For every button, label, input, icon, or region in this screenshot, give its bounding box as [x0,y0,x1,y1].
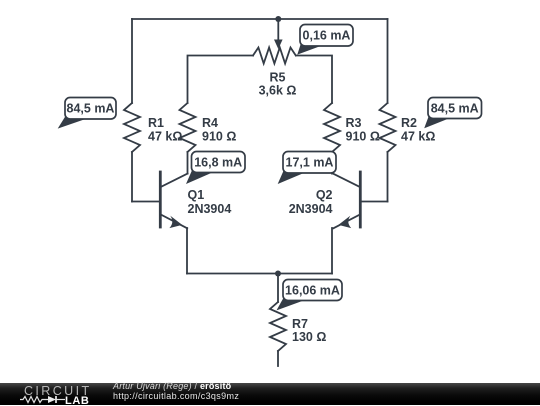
transistor Q1 [160,172,187,228]
wire R2 top lead [387,19,389,103]
node top junction [275,16,281,22]
svg-text:3,6k Ω: 3,6k Ω [259,84,297,98]
svg-text:LAB: LAB [65,395,89,406]
svg-text:R2: R2 [401,116,417,130]
svg-text:47 kΩ: 47 kΩ [401,130,435,144]
footer url line [113,391,239,401]
svg-text:16,06 mA: 16,06 mA [285,284,340,298]
potentiometer wiper arrow [274,20,283,49]
svg-text:R3: R3 [346,116,362,130]
wire R3 bottom lead [331,152,333,174]
wire R4 bottom lead [187,152,189,174]
wire bottom rail [187,273,332,275]
wire R4 top lead to R5 left [188,56,254,104]
svg-text:2N3904: 2N3904 [188,202,232,216]
transistor Q2 [333,172,360,228]
footer bar [0,383,540,405]
wire Q2 emitter down [331,228,333,274]
svg-text:910 Ω: 910 Ω [346,130,380,144]
wire R1 bottom lead [131,152,133,202]
CircuitLab logo wordmark CIRCUIT [24,384,92,398]
svg-text:R7: R7 [292,317,308,331]
svg-text:910 Ω: 910 Ω [202,130,236,144]
wire R7 top lead [277,274,279,303]
wire R5 right to R3 top lead [296,56,332,104]
svg-text:16,8 mA: 16,8 mA [194,156,242,170]
annotation balloon 17,1 mA [278,152,336,185]
resistor R4 [180,103,196,152]
wire Q1 emitter down [186,228,188,274]
svg-text:17,1 mA: 17,1 mA [286,156,334,170]
svg-text:47 kΩ: 47 kΩ [148,130,182,144]
CircuitLab logo symbol (resistor + diode) and LAB [18,395,118,406]
svg-text:R4: R4 [202,116,218,130]
resistor R3 [324,103,340,152]
resistor R1 [124,103,140,152]
footer credit line [113,381,231,391]
annotation balloon 84,5 mA left [58,98,116,129]
annotation balloon 16,06 mA [277,280,343,311]
resistor R5 (potentiometer body) [253,48,296,64]
svg-text:Q2: Q2 [316,188,333,202]
svg-text:Q1: Q1 [188,188,205,202]
annotation balloon 84,5 mA right [424,98,481,129]
wire top rail [132,18,388,20]
svg-text:84,5 mA: 84,5 mA [431,102,479,116]
svg-text:R1: R1 [148,116,164,130]
wire R1 top lead [131,19,133,103]
svg-text:0,16 mA: 0,16 mA [303,29,351,43]
wire Q1 base [132,201,160,203]
node bottom junction [275,271,281,277]
svg-text:84,5 mA: 84,5 mA [67,102,115,116]
svg-text:R5: R5 [270,71,286,85]
svg-text:2N3904: 2N3904 [289,202,333,216]
annotation balloon 0,16 mA [297,25,353,55]
wire R2 bottom lead [387,152,389,202]
resistor R2 [380,103,396,152]
wire Q2 base [361,201,388,203]
wire R7 bottom lead [277,351,279,366]
annotation balloon 16,8 mA [186,152,245,185]
resistor R7 [270,302,286,351]
svg-text:130 Ω: 130 Ω [292,330,326,344]
